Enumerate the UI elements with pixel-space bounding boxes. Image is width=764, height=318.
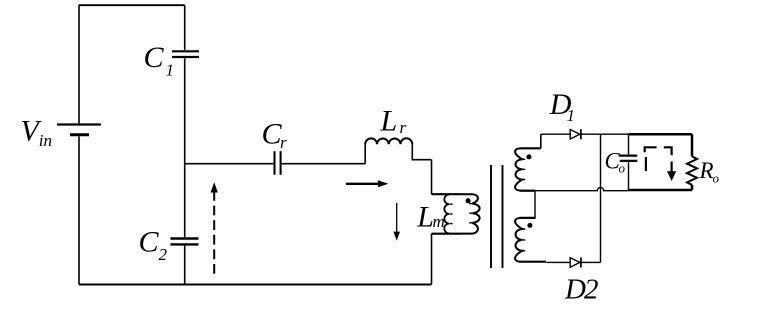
primary winding cusp ticks xyxy=(469,204,472,223)
label L_m xyxy=(416,200,444,233)
secondary bottom cusp ticks xyxy=(522,229,525,251)
polarity dot primary xyxy=(466,198,471,203)
wire step down after Lr xyxy=(412,144,431,160)
inductor Lr xyxy=(365,138,412,144)
resistor Ro zigzag xyxy=(687,156,697,185)
label C_o xyxy=(605,148,626,175)
diode D1 xyxy=(570,129,581,139)
secondary winding top coil xyxy=(515,148,522,190)
wire main rail left of Cr xyxy=(185,163,274,165)
svg-text:r: r xyxy=(400,118,407,137)
label D_1 xyxy=(549,88,575,125)
wire left rail lower xyxy=(78,136,80,284)
battery Vin long plate xyxy=(57,123,101,125)
wire top rail xyxy=(79,4,185,6)
svg-text:1: 1 xyxy=(567,106,576,125)
polarity dot secondary bottom xyxy=(527,223,532,228)
polarity dot secondary top xyxy=(526,154,531,159)
svg-text:C: C xyxy=(144,41,165,74)
wire center tap stub (top winding bottom) xyxy=(520,190,536,192)
dashed arrow up (resonant current) xyxy=(211,182,218,273)
inductor Lm bottom stub xyxy=(432,233,462,235)
wire mid vertical between C1 and C2 xyxy=(184,58,186,237)
secondary winding bottom: bottom stub xyxy=(520,261,547,263)
label C_r xyxy=(262,118,288,153)
wire center tap to output with hop over vertical xyxy=(535,188,629,191)
wire D2 cathode to vertical xyxy=(581,261,601,263)
wire D1 cathode to output node xyxy=(581,133,629,135)
wire primary right vertical upper xyxy=(431,160,433,195)
wire center tap junction vertical xyxy=(534,191,536,218)
transformer core line right xyxy=(502,165,504,268)
wire cathode-common vertical xyxy=(600,134,602,262)
wire mid vertical lower xyxy=(184,246,186,285)
wire Co branch bottom xyxy=(628,162,630,190)
capacitor Co xyxy=(620,156,638,161)
capacitor C1 xyxy=(172,51,199,57)
label R_o xyxy=(699,158,720,185)
wire left rail upper xyxy=(78,5,80,123)
secondary winding bottom coil xyxy=(515,218,522,262)
wire Co branch top xyxy=(628,134,630,154)
wire output box bottom (thick) xyxy=(629,189,693,192)
capacitor C2 xyxy=(170,239,198,245)
svg-text:L: L xyxy=(380,105,398,138)
svg-text:1: 1 xyxy=(166,61,175,80)
wire mid vertical upper (C1 branch) xyxy=(184,5,186,50)
label V_in xyxy=(21,114,53,150)
svg-text:o: o xyxy=(619,161,626,176)
secondary top cusp ticks xyxy=(522,159,525,179)
svg-text:R: R xyxy=(699,158,714,183)
inductor Lm scallop column xyxy=(444,195,449,234)
diode D2 xyxy=(570,257,581,267)
wire primary right vertical lower xyxy=(431,234,433,285)
svg-text:L: L xyxy=(416,200,434,233)
wire D2 anode segment xyxy=(546,261,570,263)
label D2 xyxy=(564,273,598,305)
wire output box top (thick) xyxy=(629,133,693,136)
dashed load-current loop: top-left corner dash xyxy=(645,147,657,152)
svg-text:C: C xyxy=(139,225,160,258)
label L_r xyxy=(380,105,407,138)
label C_2 xyxy=(139,225,168,263)
dashed load-current loop: top-right corner dash xyxy=(664,147,672,155)
svg-text:r: r xyxy=(280,133,287,152)
wire output box right upper xyxy=(691,134,694,156)
label C_1 xyxy=(144,41,175,80)
secondary winding top: top stub xyxy=(520,147,541,149)
wire output box right lower xyxy=(691,185,694,190)
svg-text:o: o xyxy=(713,170,720,185)
dashed load-current loop: arrow down xyxy=(667,162,676,182)
svg-text:m: m xyxy=(433,212,445,231)
svg-text:D2: D2 xyxy=(564,273,598,305)
inductor Lm top stub xyxy=(432,193,462,195)
svg-text:in: in xyxy=(39,131,52,150)
inductor Lm cusp ticks xyxy=(450,204,453,223)
battery Vin short plate xyxy=(70,133,89,136)
wire D1 anode segment xyxy=(541,133,570,135)
wire step up into Lr xyxy=(364,144,366,164)
wire main rail right of Cr xyxy=(282,163,366,165)
svg-text:2: 2 xyxy=(159,245,168,264)
wire bottom rail xyxy=(79,283,432,285)
arrow solid right (power flow) xyxy=(346,180,389,187)
transformer primary winding balloon column xyxy=(461,194,480,233)
wire from top winding up to D1 xyxy=(540,134,542,148)
dashed load-current loop: left side dash xyxy=(645,157,647,171)
capacitor Cr xyxy=(275,151,281,175)
arrow down thin (magnetizing current) xyxy=(393,203,400,241)
secondary winding bottom: top stub xyxy=(520,217,536,219)
transformer core line left xyxy=(490,165,492,268)
